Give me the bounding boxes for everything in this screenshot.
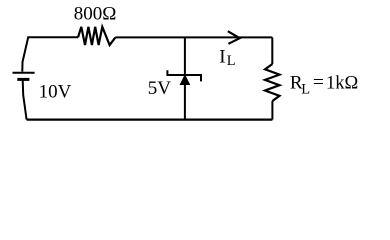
- svg-text:1kΩ: 1kΩ: [326, 74, 358, 94]
- svg-text:5V: 5V: [148, 78, 172, 99]
- wire: bottom rail: [27, 118, 273, 120]
- svg-text:I: I: [219, 46, 225, 67]
- battery V1 bottom plate (short, negative): [17, 78, 29, 81]
- wire: battery negative terminal down to bottom-left corner: [23, 80, 27, 119]
- wire: right branch upper (top-right corner down to RL): [271, 37, 273, 64]
- svg-text:800Ω: 800Ω: [74, 4, 117, 25]
- zener diode D1 cathode bar with bent ends: [167, 70, 201, 81]
- wire: middle branch lower (zener anode to bottom rail): [184, 84, 186, 120]
- current arrow IL on top wire: [228, 31, 240, 44]
- wire: battery positive terminal up to top-left corner and across to resistor: [22, 37, 78, 71]
- zener diode D1 anode triangle (pointing up): [180, 75, 189, 84]
- resistor RL 1k ohm (vertical zigzag): [265, 64, 280, 101]
- svg-text:10V: 10V: [39, 82, 72, 103]
- battery V1 top plate (long, positive): [13, 72, 35, 74]
- svg-text:L: L: [227, 53, 236, 69]
- wire: top rail from resistor through middle junction to top-right corner: [115, 36, 272, 38]
- svg-text:L: L: [301, 81, 310, 97]
- svg-text:=: =: [313, 73, 324, 94]
- wire: middle branch upper (top rail down to zener cathode): [184, 37, 186, 75]
- wire: right branch lower (RL down to bottom-right corner): [271, 101, 273, 120]
- resistor R1 800 ohm (horizontal zigzag): [78, 27, 115, 45]
